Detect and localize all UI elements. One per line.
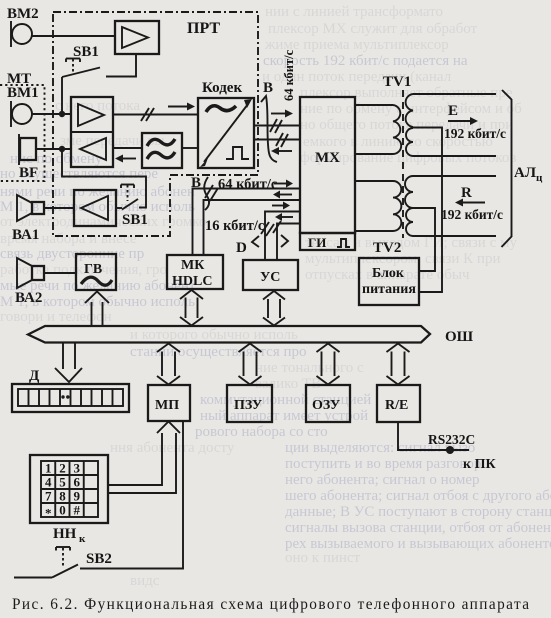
arrow B out of MX [273,191,292,199]
svg-text:7: 7 [45,489,52,504]
wire TV2 center tap to power unit [413,208,435,271]
wire MX to codec (receive) [254,139,300,141]
svg-text:2: 2 [59,461,66,476]
svg-text:ВА1: ВА1 [12,227,39,243]
svg-text:ПРТ: ПРТ [187,20,220,37]
node RS232C [428,432,475,454]
wire D-channel US to MX [265,212,300,261]
bus arrow display D [55,343,82,383]
svg-text:Блок: Блок [372,266,405,281]
svg-text:HDLC: HDLC [172,274,212,289]
transformer TV1 [355,74,413,156]
wire codec to filter [182,147,198,149]
wire BF to dual amplifier [36,148,71,150]
bus arrow OZU [317,344,340,385]
switch SB1 (lower) [121,185,148,229]
svg-text:ние по обмену с интерфейсом и: ние по обмену с интерфейсом и об [300,101,522,117]
label 64 kbit/s vertical [282,49,296,101]
wire BM1 to dual amplifier [32,113,71,115]
node B label lower [191,175,201,191]
wire BF junction to speakerphone switch [62,149,146,208]
bus arrow MK HDLC [180,290,203,326]
svg-text:нями речи по желанию абонен: нями речи по желанию абонен [0,184,195,200]
svg-text:к: к [79,533,86,545]
svg-text:Д: Д [29,368,40,384]
wire BM2 to amplifier A1 [32,35,115,37]
codec U1 [198,80,254,168]
svg-text:питания: питания [362,282,416,297]
dual amplifier A2/A3 box [71,97,113,167]
label 64 kbit/s lower [218,177,278,193]
label PRT [187,20,220,37]
multiplexer MX [300,97,355,233]
wire B-channel MK HDLC to MX [193,189,301,256]
clock generator GI [300,233,355,250]
loudspeaker BA1 [12,195,44,243]
svg-text:R/E: R/E [385,398,408,413]
svg-text:64 кбит/с: 64 кбит/с [282,49,296,101]
filter Z1 [142,133,182,168]
svg-text:МХ: МХ [315,150,340,166]
svg-text:D: D [236,240,247,256]
wire A1 output to switch SB1 [106,54,136,77]
svg-text:ОШ: ОШ [445,329,474,345]
svg-text:R: R [461,185,472,201]
arrow B into MX [274,180,293,188]
svg-text:УС: УС [260,270,280,285]
svg-text:В: В [191,175,201,191]
wire R line b [413,235,496,237]
arrow into MX [271,110,293,118]
keypad to MP thick arrow [108,422,180,494]
svg-text:Кодек: Кодек [202,80,242,96]
slash marks on transmit wire [141,108,154,121]
system bus OSh [28,326,474,345]
svg-text:МП: МП [155,398,179,413]
arrow out of MX [271,147,292,155]
arrow receive direction [115,155,136,163]
svg-text:ОЗУ: ОЗУ [312,398,340,413]
svg-text:Рис. 6.2. Функциональная схема: Рис. 6.2. Функциональная схема цифрового… [12,596,530,613]
wire R line a [413,175,496,177]
wire B-channel MX to MK HDLC [204,200,301,255]
bus arrow to GV [85,292,109,327]
svg-text:ння абонента досту: ння абонента досту [110,440,235,456]
wire BA1 to A4 [44,207,74,209]
label R with arrow [441,185,503,222]
node D label with bundle marks [236,221,288,256]
svg-text:и которого обычно исполь: и которого обычно исполь [130,327,298,343]
svg-text:к ПК: к ПК [463,457,496,472]
block PRT dashed-dotted border [53,12,258,236]
svg-text:192 кбит/с: 192 кбит/с [441,207,503,222]
wire R/E to RS232C port [398,422,469,450]
microphone BM1 [7,85,39,127]
svg-text:3: 3 [73,461,80,476]
svg-text:рового набора со сто: рового набора со сто [195,424,328,440]
svg-text:ВМ1: ВМ1 [7,85,39,101]
svg-text:В: В [263,80,273,96]
bundle swoosh and slashes on B wires [204,177,218,210]
wire E line b [413,155,496,157]
ringer GV [76,254,116,290]
svg-text:ние тонального с: ние тонального с [255,360,364,376]
svg-text:НН: НН [53,526,77,542]
microphone BM2 [7,6,39,47]
svg-text:сигналы вызова станции, отбоя: сигналы вызова станции, отбоя от абонент… [285,520,551,536]
switch SB1 (upper) [62,44,100,111]
slash marks codec-MX wires [270,119,288,147]
svg-text:ГВ: ГВ [84,262,102,277]
wire SB2 to MP [80,421,183,569]
svg-text:*: * [45,506,52,521]
svg-text:192 кбит/с: 192 кбит/с [444,126,506,141]
svg-text:АЛ: АЛ [514,165,536,181]
bus arrow PZU [239,344,262,385]
wire TV1 center tap to power unit [413,128,442,293]
switch SB2 [52,547,112,578]
svg-text:SB1: SB1 [122,212,148,228]
subscriber line brace AL [502,90,544,247]
svg-text:SB2: SB2 [86,551,112,567]
transformer TV2 [355,176,413,256]
svg-text:9: 9 [73,489,80,504]
svg-text:ГИ: ГИ [308,235,326,250]
svg-text:тенсам и выходом ГИ; связи с м: тенсам и выходом ГИ; связи с му [305,235,517,251]
svg-text:TV2: TV2 [373,240,401,256]
svg-text:оно к пинст: оно к пинст [285,550,361,566]
bus arrow MP [157,344,180,385]
arrow D out of MX [275,213,293,221]
wire SB2 left lead [14,577,52,579]
bus arrow US [263,291,285,326]
svg-text:стании осуществляется про: стании осуществляется про [130,344,307,360]
svg-text:64 кбит/с: 64 кбит/с [218,177,278,193]
wire D-channel MX to US [277,224,300,261]
label k PK [463,457,496,472]
label E with arrow [444,103,506,141]
svg-text:E: E [448,103,458,119]
svg-text:RS232C: RS232C [428,432,475,447]
node on BF wire [59,146,65,152]
RAM OZU [306,385,350,422]
svg-text:данные; В УС поступают в сторо: данные; В УС поступают в сторону станции… [285,504,551,520]
svg-text:плексор МХ служит для обработ: плексор МХ служит для обработ [268,21,478,37]
wire codec to MX (transmit) [254,125,300,127]
node on BM1 wire [59,111,65,117]
amplifier A1 (BM2 mic amp) [115,21,159,54]
handset MT dotted boundary [0,85,45,181]
svg-text:1: 1 [45,461,52,476]
caption [12,596,530,613]
svg-text:него абонента; сигнал о номер: него абонента; сигнал о номер [285,472,480,488]
svg-text:0: 0 [59,503,66,518]
svg-text:ПЗУ: ПЗУ [234,398,262,413]
svg-text:8: 8 [59,489,66,504]
ROM PZU [227,385,272,422]
transformer core line [402,90,404,238]
microprocessor MP [148,385,190,421]
svg-text:нии с линией трансформато: нии с линией трансформато [265,4,443,20]
bus arrow R/E [387,344,410,385]
svg-text:говори и телефон: говори и телефон [0,309,112,325]
svg-text:МК: МК [181,258,205,273]
loudspeaker BA2 [15,258,44,306]
svg-text:TV1: TV1 [383,74,411,90]
svg-text:видс: видс [130,573,160,589]
svg-text:поступить и во время разговор: поступить и во время разговор [285,456,481,472]
svg-text:шего абонента; сигнал отбоя с: шего абонента; сигнал отбоя с другого аб… [285,488,551,504]
node B label with bundle swoosh [261,80,277,162]
label 16 kbit/s [205,218,265,234]
keypad NNk [30,455,108,545]
wire E line a [413,93,496,95]
power supply unit [359,258,419,305]
wire A2 to codec [113,114,198,116]
arrow D into MX [272,202,290,210]
register R/E [377,385,420,422]
interface unit US [243,260,298,290]
wire BA2 to GV [44,272,76,274]
svg-text:5: 5 [59,475,66,490]
svg-text:6: 6 [73,475,80,490]
svg-text:ц: ц [536,172,543,184]
arrow transmit direction [168,103,195,111]
svg-text:коммутационной станцией: коммутационной станцией [200,392,371,408]
svg-text:4: 4 [45,475,52,490]
svg-text:BF: BF [19,165,38,181]
amplifier A4 (speaker amp) [74,190,122,226]
display D [12,368,129,412]
wire filter to A3 [113,147,142,149]
controller MK HDLC [167,255,223,289]
svg-text:ВА2: ВА2 [15,290,42,306]
svg-text:ВМ2: ВМ2 [7,6,39,22]
svg-text:16 кбит/с: 16 кбит/с [205,218,265,234]
svg-text:#: # [73,503,80,518]
label MT [7,71,31,87]
earphone BF [19,134,38,181]
